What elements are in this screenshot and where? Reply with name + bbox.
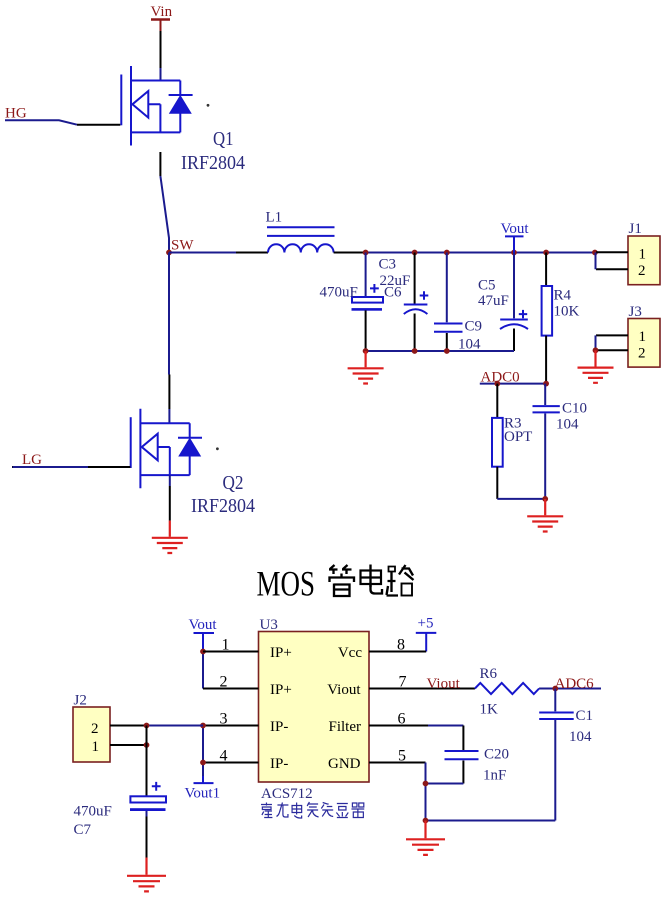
svg-text:Viout: Viout xyxy=(327,682,361,698)
svg-text:C1: C1 xyxy=(576,708,594,724)
svg-text:Vout: Vout xyxy=(501,221,530,237)
capacitor C6 470uF xyxy=(352,253,384,352)
junction C3 top xyxy=(412,250,418,256)
pin 6 xyxy=(369,711,463,728)
node C20 junction xyxy=(423,781,429,787)
junction R4 top xyxy=(543,250,549,256)
junction J1 xyxy=(592,250,598,256)
wire bottom rail xyxy=(366,350,514,352)
svg-text:L1: L1 xyxy=(266,210,283,226)
power port Vout (sensor) xyxy=(189,617,218,689)
inductor L1 xyxy=(267,227,335,252)
capacitor C5 47uF xyxy=(500,253,528,352)
svg-text:1: 1 xyxy=(639,247,647,263)
svg-text:2: 2 xyxy=(638,346,646,362)
svg-text:Vin: Vin xyxy=(151,4,173,20)
wire SW to L1 xyxy=(169,252,236,254)
svg-text:10K: 10K xyxy=(554,304,580,320)
pin 3 xyxy=(203,711,259,728)
ground under J3 xyxy=(578,350,614,383)
wire C20 bottom to ground column xyxy=(426,783,464,785)
wire L1 to rail xyxy=(334,252,366,254)
capacitor C10 104 xyxy=(533,384,560,499)
svg-text:C3: C3 xyxy=(379,257,397,273)
wire pin3 to Vout1 xyxy=(202,726,204,777)
transistor Q2 xyxy=(131,409,202,489)
svg-text:IP-: IP- xyxy=(270,756,288,772)
wire Q2 source to ground xyxy=(169,475,171,537)
svg-text:104: 104 xyxy=(556,417,579,433)
connector J3 xyxy=(596,304,661,367)
pin 8 xyxy=(369,637,426,654)
svg-text:IRF2804: IRF2804 xyxy=(191,495,255,517)
svg-text:R4: R4 xyxy=(554,288,572,304)
svg-text:C7: C7 xyxy=(74,822,92,838)
junction C3 bottom xyxy=(412,348,418,354)
title char dian xyxy=(361,565,383,594)
svg-text:MOS: MOS xyxy=(257,564,316,604)
svg-text:1: 1 xyxy=(92,739,100,755)
svg-text:J1: J1 xyxy=(629,221,642,237)
junction R3 top xyxy=(494,381,500,387)
connector J2 xyxy=(73,693,147,763)
svg-text:ACS712: ACS712 xyxy=(261,786,313,802)
capacitor C9 104 xyxy=(434,253,463,352)
node ADC6 xyxy=(552,686,558,692)
svg-text:HG: HG xyxy=(5,106,27,122)
wire R3 to C10 bottom xyxy=(497,498,545,500)
title char guan xyxy=(329,565,354,596)
power port +5 xyxy=(416,616,437,652)
svg-text:47uF: 47uF xyxy=(478,293,509,309)
ground under Q2 xyxy=(152,538,188,553)
svg-text:OPT: OPT xyxy=(504,429,532,445)
svg-text:470uF: 470uF xyxy=(74,804,112,820)
svg-text:Q1: Q1 xyxy=(213,128,234,150)
wire LG to Q2 gate xyxy=(12,466,16,468)
resistor R4 xyxy=(542,253,553,384)
junction J2 pin1 xyxy=(144,742,150,748)
svg-text:U3: U3 xyxy=(260,617,278,633)
svg-text:+5: +5 xyxy=(418,616,434,632)
node J3 ground junction xyxy=(593,347,599,353)
svg-text:IP+: IP+ xyxy=(270,682,292,698)
wire SW to Q2 drain xyxy=(168,253,170,424)
transistor Q1 xyxy=(121,66,192,146)
svg-text:IP+: IP+ xyxy=(270,645,292,661)
svg-text:Filter: Filter xyxy=(329,719,362,735)
pin 2 xyxy=(203,674,259,691)
svg-text:R6: R6 xyxy=(480,666,498,682)
node C10 ground junction xyxy=(542,496,548,502)
resistor R6 xyxy=(475,683,539,694)
wire Q1 source to SW xyxy=(159,152,161,176)
wire drain entry xyxy=(160,68,162,81)
svg-text:470uF: 470uF xyxy=(320,285,358,301)
svg-text:GND: GND xyxy=(328,756,361,772)
wire top rail xyxy=(366,252,595,254)
ground under sensor xyxy=(406,839,445,855)
svg-text:C20: C20 xyxy=(484,747,509,763)
junction C6 bottom xyxy=(363,348,369,354)
node SW xyxy=(166,250,172,256)
junction C6 top xyxy=(363,250,369,256)
node C1 junction xyxy=(423,818,429,824)
power port Vout xyxy=(501,221,530,253)
svg-text:IP-: IP- xyxy=(270,719,288,735)
IC U3 xyxy=(259,617,370,782)
title char lu xyxy=(387,565,414,596)
svg-text:Vout1: Vout1 xyxy=(185,786,221,802)
wire ADC0 xyxy=(480,383,546,385)
connector J1 xyxy=(596,221,661,285)
node pin4 junction xyxy=(200,760,206,766)
capacitor C7 470uF xyxy=(130,726,166,875)
svg-text:ADC6: ADC6 xyxy=(555,676,595,692)
svg-text:22uF: 22uF xyxy=(380,273,411,289)
svg-text:1K: 1K xyxy=(480,702,499,718)
capacitor C20 1nF xyxy=(445,726,479,784)
power port Vout1 xyxy=(185,783,221,801)
pin 4 xyxy=(203,748,259,765)
svg-text:1: 1 xyxy=(639,329,647,345)
junction C9 bottom xyxy=(444,348,450,354)
pin 7 xyxy=(369,674,475,691)
wire pin5 to ground xyxy=(425,763,427,821)
wire Vin to Q1 drain xyxy=(160,31,162,68)
node pin1 junction xyxy=(200,649,206,655)
junction J2 pin2 xyxy=(144,723,150,729)
svg-text:Viout: Viout xyxy=(427,676,461,692)
svg-text:1nF: 1nF xyxy=(483,768,506,784)
ground under C10 xyxy=(527,499,563,532)
junction ADC0 xyxy=(543,381,549,387)
capacitor C3 22uF xyxy=(404,253,429,352)
svg-text:SW: SW xyxy=(171,238,194,254)
svg-text:2: 2 xyxy=(91,721,99,737)
wire C1 bottom to ground column xyxy=(426,820,556,822)
svg-text:LG: LG xyxy=(22,452,42,468)
resistor R3 xyxy=(492,384,503,499)
junction Vout xyxy=(511,250,517,256)
svg-text:IRF2804: IRF2804 xyxy=(181,152,245,174)
svg-text:Q2: Q2 xyxy=(223,472,244,494)
svg-text:Vout: Vout xyxy=(189,617,218,633)
ground under C7 xyxy=(127,876,166,892)
svg-text:C9: C9 xyxy=(465,319,483,335)
wire R6 to ADC6 xyxy=(539,688,601,690)
node pin3 junction xyxy=(200,723,206,729)
svg-text:J3: J3 xyxy=(629,304,642,320)
svg-text:C10: C10 xyxy=(562,401,587,417)
svg-text:2: 2 xyxy=(638,263,646,279)
svg-text:J2: J2 xyxy=(74,693,87,709)
wire HG to gate xyxy=(5,120,77,124)
svg-text:104: 104 xyxy=(569,729,592,745)
pin 1 xyxy=(203,637,259,654)
capacitor C1 104 xyxy=(539,689,574,821)
wire J2 to pin3 xyxy=(147,725,204,727)
power port Vin xyxy=(151,4,173,31)
pin 5 xyxy=(369,748,426,765)
junction C9 top xyxy=(444,250,450,256)
svg-text:Vcc: Vcc xyxy=(338,645,362,661)
ground stub sensor xyxy=(424,821,426,839)
svg-text:C5: C5 xyxy=(478,278,496,294)
ground under cap bank xyxy=(348,351,384,384)
label hall sensor chinese xyxy=(261,802,364,818)
